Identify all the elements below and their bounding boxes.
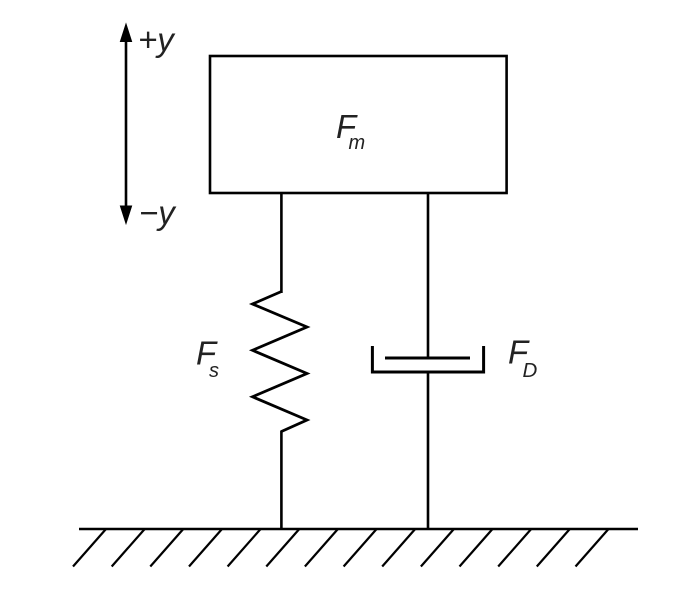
mass block Fm bbox=[210, 56, 507, 193]
svg-text:m: m bbox=[349, 132, 366, 154]
ground hatching bbox=[73, 529, 609, 567]
damper cylinder cup bbox=[372, 346, 483, 372]
ground line bbox=[79, 528, 638, 531]
wire mass to damper piston rod bbox=[427, 193, 430, 358]
wire spring to ground bbox=[280, 431, 283, 530]
svg-text:+y: +y bbox=[138, 21, 176, 58]
wire damper to ground bbox=[427, 372, 430, 529]
motion axis arrow (double-headed, +y/-y) bbox=[120, 24, 131, 224]
svg-text:D: D bbox=[523, 359, 538, 382]
svg-text:s: s bbox=[209, 360, 219, 382]
svg-text:−y: −y bbox=[139, 194, 177, 231]
wire mass to spring bbox=[280, 193, 283, 293]
damper piston plate bbox=[385, 357, 470, 360]
spring Fs bbox=[253, 292, 308, 432]
